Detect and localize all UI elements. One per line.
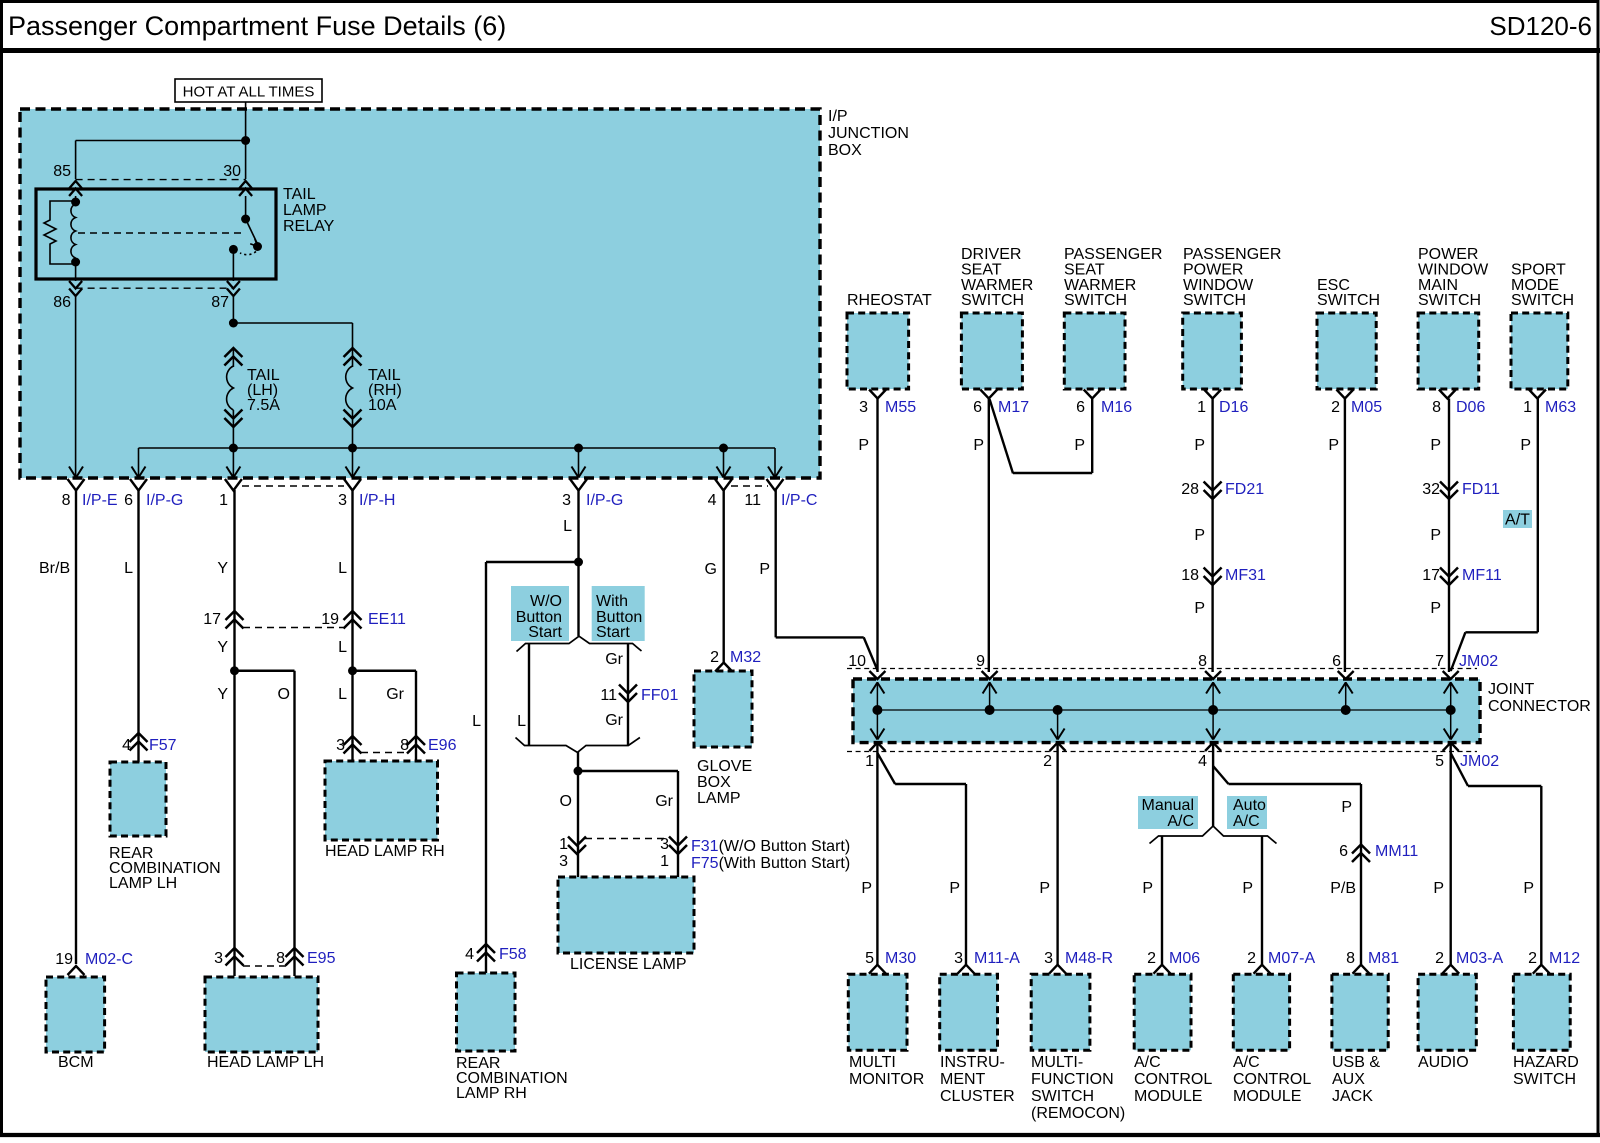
- svg-text:L: L: [338, 560, 347, 577]
- svg-text:9: 9: [976, 653, 985, 670]
- svg-text:JM02: JM02: [1460, 753, 1499, 770]
- svg-text:SWITCH: SWITCH: [1317, 292, 1380, 309]
- svg-text:PASSENGER: PASSENGER: [1183, 246, 1281, 263]
- svg-text:L: L: [338, 686, 347, 703]
- svg-text:Gr: Gr: [655, 793, 673, 810]
- svg-text:L: L: [472, 713, 481, 730]
- svg-text:SWITCH: SWITCH: [1513, 1071, 1576, 1088]
- svg-text:SWITCH: SWITCH: [1418, 292, 1481, 309]
- svg-text:F75(With Button Start): F75(With Button Start): [691, 855, 850, 872]
- svg-text:TAIL: TAIL: [283, 186, 316, 203]
- svg-text:17: 17: [1422, 567, 1440, 584]
- svg-text:4: 4: [1198, 753, 1207, 770]
- svg-text:JOINT: JOINT: [1488, 681, 1534, 698]
- svg-text:3: 3: [559, 853, 568, 870]
- svg-text:A/C: A/C: [1167, 813, 1194, 830]
- svg-text:M12: M12: [1549, 950, 1580, 967]
- svg-text:MF11: MF11: [1462, 567, 1502, 584]
- svg-text:MULTI-: MULTI-: [1031, 1054, 1083, 1071]
- svg-text:P: P: [973, 437, 984, 454]
- svg-text:FUNCTION: FUNCTION: [1031, 1071, 1114, 1088]
- svg-text:3: 3: [562, 492, 571, 509]
- svg-text:P: P: [1523, 880, 1534, 897]
- svg-text:L: L: [517, 713, 526, 730]
- svg-text:MONITOR: MONITOR: [849, 1071, 924, 1088]
- svg-text:M11-A: M11-A: [974, 950, 1020, 967]
- svg-text:I/P-G: I/P-G: [146, 492, 183, 509]
- svg-text:D16: D16: [1219, 399, 1248, 416]
- svg-text:SD120-6: SD120-6: [1489, 11, 1592, 41]
- svg-text:JM02: JM02: [1459, 653, 1498, 670]
- svg-text:I/P-G: I/P-G: [586, 492, 623, 509]
- svg-text:BOX: BOX: [697, 774, 731, 791]
- svg-text:2: 2: [1147, 950, 1156, 967]
- svg-text:1: 1: [865, 753, 874, 770]
- svg-text:P: P: [861, 880, 872, 897]
- svg-text:P: P: [1194, 600, 1205, 617]
- svg-text:Start: Start: [596, 624, 630, 641]
- svg-text:EE11: EE11: [368, 611, 406, 628]
- svg-text:FD11: FD11: [1462, 481, 1500, 498]
- svg-text:P: P: [1194, 437, 1205, 454]
- svg-text:LAMP: LAMP: [283, 202, 327, 219]
- svg-text:87: 87: [211, 294, 229, 311]
- svg-text:MENT: MENT: [940, 1071, 986, 1088]
- svg-text:Gr: Gr: [605, 651, 623, 668]
- svg-text:Br/B: Br/B: [39, 560, 70, 577]
- svg-text:POWER: POWER: [1183, 262, 1243, 279]
- svg-text:AUDIO: AUDIO: [1418, 1054, 1469, 1071]
- svg-text:D06: D06: [1456, 399, 1485, 416]
- svg-text:4: 4: [708, 492, 717, 509]
- svg-text:MODULE: MODULE: [1233, 1088, 1301, 1105]
- svg-text:F31(W/O Button Start): F31(W/O Button Start): [691, 838, 850, 855]
- svg-text:6: 6: [124, 492, 133, 509]
- svg-text:L: L: [338, 639, 347, 656]
- svg-text:P/B: P/B: [1330, 880, 1356, 897]
- svg-text:LAMP RH: LAMP RH: [456, 1085, 527, 1102]
- svg-text:8: 8: [1346, 950, 1355, 967]
- svg-text:BOX: BOX: [828, 142, 862, 159]
- svg-text:HEAD LAMP RH: HEAD LAMP RH: [325, 843, 445, 860]
- svg-text:86: 86: [53, 294, 71, 311]
- svg-text:I/P: I/P: [828, 108, 848, 125]
- svg-text:BCM: BCM: [58, 1054, 94, 1071]
- svg-text:SWITCH: SWITCH: [961, 292, 1024, 309]
- svg-text:1: 1: [660, 853, 669, 870]
- svg-text:SWITCH: SWITCH: [1511, 292, 1574, 309]
- svg-text:19: 19: [321, 611, 339, 628]
- svg-text:JUNCTION: JUNCTION: [828, 125, 909, 142]
- svg-text:M63: M63: [1545, 399, 1576, 416]
- svg-text:6: 6: [1339, 843, 1348, 860]
- svg-text:SWITCH: SWITCH: [1064, 292, 1127, 309]
- svg-text:I/P-C: I/P-C: [781, 492, 817, 509]
- svg-text:SPORT: SPORT: [1511, 262, 1566, 279]
- svg-text:CONTROL: CONTROL: [1233, 1071, 1311, 1088]
- svg-text:FF01: FF01: [641, 687, 678, 704]
- svg-text:WINDOW: WINDOW: [1418, 262, 1489, 279]
- svg-text:M03-A: M03-A: [1456, 950, 1503, 967]
- svg-text:P: P: [858, 437, 869, 454]
- svg-text:2: 2: [1435, 950, 1444, 967]
- svg-text:A/C: A/C: [1233, 1054, 1260, 1071]
- svg-text:3: 3: [338, 492, 347, 509]
- svg-text:4: 4: [122, 737, 131, 754]
- svg-text:28: 28: [1181, 481, 1199, 498]
- svg-text:1: 1: [1523, 399, 1532, 416]
- svg-text:M81: M81: [1368, 950, 1399, 967]
- svg-text:2: 2: [710, 649, 719, 666]
- svg-text:USB &: USB &: [1332, 1054, 1380, 1071]
- svg-text:CLUSTER: CLUSTER: [940, 1088, 1015, 1105]
- svg-text:2: 2: [1247, 950, 1256, 967]
- svg-text:M05: M05: [1351, 399, 1382, 416]
- svg-text:M17: M17: [998, 399, 1029, 416]
- svg-text:W/O: W/O: [530, 593, 562, 610]
- svg-text:P: P: [1430, 527, 1441, 544]
- svg-text:P: P: [1074, 437, 1085, 454]
- svg-text:SWITCH: SWITCH: [1183, 292, 1246, 309]
- svg-text:Y: Y: [217, 560, 228, 577]
- svg-text:8: 8: [62, 492, 71, 509]
- svg-text:7: 7: [1435, 653, 1444, 670]
- svg-text:P: P: [1242, 880, 1253, 897]
- svg-text:11: 11: [600, 687, 617, 704]
- svg-text:HOT AT ALL TIMES: HOT AT ALL TIMES: [183, 84, 315, 101]
- svg-text:HEAD LAMP LH: HEAD LAMP LH: [207, 1054, 324, 1071]
- svg-text:With: With: [596, 593, 628, 610]
- svg-text:O: O: [278, 686, 290, 703]
- svg-text:Passenger Compartment Fuse Det: Passenger Compartment Fuse Details (6): [8, 11, 506, 41]
- svg-text:F58: F58: [499, 946, 527, 963]
- svg-text:FD21: FD21: [1225, 481, 1264, 498]
- svg-text:5: 5: [865, 950, 874, 967]
- svg-text:M16: M16: [1101, 399, 1132, 416]
- svg-text:18: 18: [1181, 567, 1199, 584]
- svg-text:6: 6: [1076, 399, 1085, 416]
- svg-text:AUX: AUX: [1332, 1071, 1365, 1088]
- svg-text:5: 5: [1435, 753, 1444, 770]
- svg-text:8: 8: [1198, 653, 1207, 670]
- svg-text:O: O: [560, 793, 572, 810]
- svg-text:G: G: [705, 561, 717, 578]
- svg-text:3: 3: [214, 950, 223, 967]
- svg-text:M30: M30: [885, 950, 916, 967]
- svg-text:A/C: A/C: [1233, 813, 1260, 830]
- svg-text:P: P: [1520, 437, 1531, 454]
- svg-text:Start: Start: [528, 624, 562, 641]
- svg-text:6: 6: [1332, 653, 1341, 670]
- svg-text:LAMP: LAMP: [697, 790, 741, 807]
- svg-text:DRIVER: DRIVER: [961, 246, 1021, 263]
- svg-text:3: 3: [336, 737, 345, 754]
- svg-text:10A: 10A: [368, 397, 397, 414]
- svg-text:10: 10: [848, 653, 866, 670]
- svg-text:LAMP LH: LAMP LH: [109, 875, 177, 892]
- svg-text:MULTI: MULTI: [849, 1054, 896, 1071]
- svg-text:P: P: [1194, 527, 1205, 544]
- svg-text:P: P: [1341, 799, 1352, 816]
- svg-text:3: 3: [660, 836, 669, 853]
- svg-text:8: 8: [276, 950, 285, 967]
- svg-text:M07-A: M07-A: [1268, 950, 1315, 967]
- svg-text:32: 32: [1422, 481, 1440, 498]
- svg-text:INSTRU-: INSTRU-: [940, 1054, 1005, 1071]
- svg-text:JACK: JACK: [1332, 1088, 1373, 1105]
- svg-text:P: P: [759, 561, 770, 578]
- svg-text:I/P-E: I/P-E: [82, 492, 118, 509]
- svg-text:I/P-H: I/P-H: [359, 492, 395, 509]
- svg-text:M06: M06: [1169, 950, 1200, 967]
- svg-text:Gr: Gr: [605, 712, 623, 729]
- svg-text:M32: M32: [730, 649, 761, 666]
- svg-text:2: 2: [1331, 399, 1340, 416]
- svg-text:P: P: [949, 880, 960, 897]
- svg-text:P: P: [1433, 880, 1444, 897]
- svg-text:Manual: Manual: [1142, 797, 1194, 814]
- svg-text:11: 11: [744, 492, 761, 509]
- svg-text:LICENSE LAMP: LICENSE LAMP: [570, 956, 686, 973]
- svg-text:1: 1: [219, 492, 228, 509]
- svg-text:E96: E96: [428, 737, 457, 754]
- svg-text:P: P: [1039, 880, 1050, 897]
- svg-text:L: L: [124, 560, 133, 577]
- svg-text:30: 30: [223, 163, 241, 180]
- svg-text:1: 1: [1197, 399, 1206, 416]
- svg-text:P: P: [1328, 437, 1339, 454]
- svg-text:(REMOCON): (REMOCON): [1031, 1105, 1125, 1122]
- svg-text:P: P: [1142, 880, 1153, 897]
- svg-text:6: 6: [973, 399, 982, 416]
- svg-text:Gr: Gr: [386, 686, 404, 703]
- svg-text:MF31: MF31: [1225, 567, 1266, 584]
- svg-text:2: 2: [1043, 753, 1052, 770]
- svg-text:Y: Y: [217, 686, 228, 703]
- svg-text:85: 85: [53, 163, 71, 180]
- svg-text:7.5A: 7.5A: [247, 397, 280, 414]
- svg-text:RELAY: RELAY: [283, 218, 335, 235]
- svg-text:17: 17: [203, 611, 221, 628]
- svg-text:PASSENGER: PASSENGER: [1064, 246, 1162, 263]
- svg-text:8: 8: [1432, 399, 1441, 416]
- svg-text:A/T: A/T: [1505, 512, 1530, 529]
- svg-text:A/C: A/C: [1134, 1054, 1161, 1071]
- svg-text:1: 1: [559, 836, 568, 853]
- svg-text:POWER: POWER: [1418, 246, 1478, 263]
- svg-text:3: 3: [859, 399, 868, 416]
- svg-text:M02-C: M02-C: [85, 951, 133, 968]
- svg-text:4: 4: [465, 946, 474, 963]
- svg-text:Y: Y: [217, 639, 228, 656]
- svg-text:L: L: [563, 518, 572, 535]
- svg-text:Auto: Auto: [1233, 797, 1266, 814]
- svg-text:SWITCH: SWITCH: [1031, 1088, 1094, 1105]
- svg-text:GLOVE: GLOVE: [697, 758, 752, 775]
- svg-text:SEAT: SEAT: [1064, 262, 1105, 279]
- svg-text:19: 19: [55, 951, 73, 968]
- svg-text:E95: E95: [307, 950, 336, 967]
- svg-text:F57: F57: [149, 737, 177, 754]
- svg-text:M55: M55: [885, 399, 916, 416]
- svg-text:SEAT: SEAT: [961, 262, 1002, 279]
- svg-text:CONNECTOR: CONNECTOR: [1488, 698, 1591, 715]
- svg-text:RHEOSTAT: RHEOSTAT: [847, 292, 932, 309]
- svg-text:P: P: [1430, 437, 1441, 454]
- svg-text:CONTROL: CONTROL: [1134, 1071, 1212, 1088]
- svg-text:3: 3: [954, 950, 963, 967]
- svg-text:2: 2: [1528, 950, 1537, 967]
- svg-text:3: 3: [1044, 950, 1053, 967]
- svg-text:P: P: [1430, 600, 1441, 617]
- svg-text:8: 8: [400, 737, 409, 754]
- svg-text:MM11: MM11: [1375, 843, 1418, 860]
- svg-text:MODULE: MODULE: [1134, 1088, 1202, 1105]
- svg-text:M48-R: M48-R: [1065, 950, 1113, 967]
- svg-text:HAZARD: HAZARD: [1513, 1054, 1579, 1071]
